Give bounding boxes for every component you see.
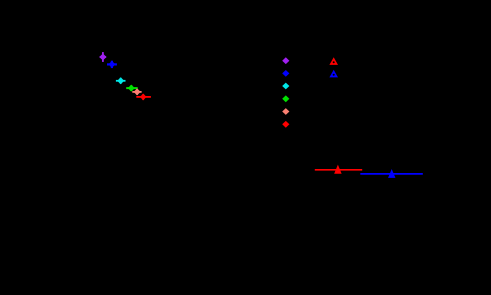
upper limit L1 red triangle with x-error bar — [315, 166, 362, 173]
legend diamond blue — [282, 70, 289, 77]
legend diamond purple — [282, 57, 289, 64]
legend open triangle blue — [329, 70, 338, 78]
legend diamond green — [282, 95, 289, 102]
data point P6 red errorbar — [136, 94, 151, 100]
legend diamond salmon — [282, 108, 289, 115]
data point P3 cyan errorbar — [116, 78, 126, 84]
legend open triangle red — [329, 57, 338, 65]
data point P4 green errorbar — [126, 85, 138, 91]
data point P2 blue errorbar — [107, 61, 117, 68]
upper limit L2 blue triangle with x-error bar — [360, 170, 423, 177]
legend diamond red — [282, 121, 289, 128]
data point P5 salmon errorbar — [132, 89, 141, 95]
data point P1 purple errorbar — [100, 52, 106, 62]
legend diamond cyan — [282, 83, 289, 90]
